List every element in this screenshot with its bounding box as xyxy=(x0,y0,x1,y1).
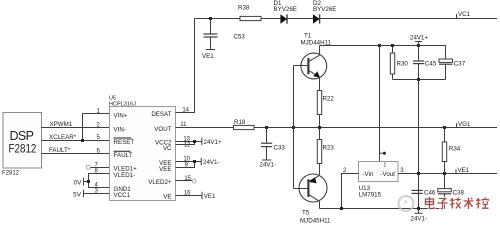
svg-text:C53: C53 xyxy=(234,34,246,41)
watermark glyph zi xyxy=(438,199,448,209)
svg-text:VCC1: VCC1 xyxy=(114,192,131,199)
watermark text glow xyxy=(426,197,489,209)
wire tie pin1-pin5 xyxy=(82,114,84,141)
resistor R30 xyxy=(392,46,394,54)
resistor R23 xyxy=(317,140,321,164)
svg-text:C38: C38 xyxy=(453,190,465,197)
power flag 24V1- bottom xyxy=(418,209,420,214)
wire XPWM1 xyxy=(42,127,110,129)
svg-text:XCLEAR*: XCLEAR* xyxy=(49,134,77,141)
svg-text:3: 3 xyxy=(400,168,404,174)
capacitor C38 electrolytic xyxy=(444,174,446,189)
svg-text:VC: VC xyxy=(163,145,172,152)
wire flag lead 13-12 xyxy=(195,141,202,143)
svg-text:T1: T1 xyxy=(304,33,312,40)
svg-text:VIN-: VIN- xyxy=(114,126,126,133)
transistor T5 MJD45H11 xyxy=(299,174,327,202)
junction pin2 col at bottom xyxy=(340,207,343,210)
power flag 24V1+ pins 13/12 xyxy=(201,138,203,146)
wire node to R23 xyxy=(319,128,321,140)
junction 0V node xyxy=(87,180,90,183)
wire R30/C45/C37 bus xyxy=(393,79,446,81)
wire pin7 stub xyxy=(91,167,110,169)
power flag 0V xyxy=(83,178,85,186)
junction VE1 at R34 col xyxy=(443,172,446,175)
svg-text:5V: 5V xyxy=(73,192,82,199)
wire T5 base lead xyxy=(294,188,309,190)
wire DESAT pin14 up xyxy=(176,19,195,113)
power flag 24V1- below C33 xyxy=(262,159,271,161)
watermark glyph kong xyxy=(476,197,489,208)
overline FAULT xyxy=(114,150,131,152)
svg-text:VOUT: VOUT xyxy=(154,126,171,133)
wire U13 gnd column xyxy=(379,46,381,162)
open circle pin15 xyxy=(192,179,196,183)
wire R22 to node xyxy=(319,115,321,128)
svg-text:R30: R30 xyxy=(397,61,409,68)
power flag VE1 below C53 xyxy=(206,49,215,51)
svg-text:24V1+: 24V1+ xyxy=(204,139,222,146)
svg-text:VG1: VG1 xyxy=(458,121,471,128)
transistor T1 MJD44H11 xyxy=(301,53,327,79)
svg-text:F2812: F2812 xyxy=(9,143,37,156)
wire 5V to pin3 xyxy=(84,193,110,195)
capacitor C45 xyxy=(418,46,420,62)
wire base column xyxy=(293,66,295,189)
svg-text:T5: T5 xyxy=(302,210,310,217)
wire U13 pin3 VE1 net xyxy=(398,173,497,175)
wire XCLEAR* xyxy=(42,140,110,142)
svg-text:LM7915: LM7915 xyxy=(359,191,382,198)
junction bracket 13-12 xyxy=(193,140,196,143)
svg-text:RESET: RESET xyxy=(114,139,135,146)
svg-text:F2812: F2812 xyxy=(2,171,20,177)
svg-text:MJD45H11: MJD45H11 xyxy=(300,218,331,225)
junction u13 gnd col tap xyxy=(378,44,381,47)
wire 24V1- column xyxy=(418,80,420,209)
wire pin16 VE xyxy=(176,195,203,197)
svg-text:FAULT*: FAULT* xyxy=(49,147,71,154)
wire pin9 bracket xyxy=(176,162,195,168)
wire T1 base lead xyxy=(294,65,309,67)
svg-text:VE1: VE1 xyxy=(458,167,470,174)
svg-text:2: 2 xyxy=(343,168,347,174)
svg-text:15: 15 xyxy=(184,176,191,182)
svg-text:HCPL316J: HCPL316J xyxy=(109,101,136,107)
svg-text:24V1-: 24V1- xyxy=(203,159,220,166)
wire 24V1+ rail xyxy=(320,46,446,60)
junction 24V1- col at bottom xyxy=(417,207,420,210)
power flag 24V1+ xyxy=(418,42,420,46)
wire pin13 xyxy=(176,141,195,143)
power flag VC1 top right xyxy=(456,14,458,19)
svg-text:BYV26E: BYV26E xyxy=(274,6,297,13)
wire U13 pin2 xyxy=(342,174,359,209)
net flag VE1 mid right xyxy=(455,169,457,173)
flag on U13 gnd column xyxy=(380,152,384,154)
watermark glyph ji xyxy=(450,198,461,209)
resistor R38 xyxy=(240,16,261,20)
wire VG1 net xyxy=(254,127,497,129)
gate driver U5 HCPL316J xyxy=(110,107,176,201)
svg-text:XPWM1: XPWM1 xyxy=(50,121,73,128)
svg-text:12: 12 xyxy=(184,142,191,148)
svg-text:VE: VE xyxy=(163,194,171,201)
svg-text:R18: R18 xyxy=(234,119,246,126)
resistor R18 xyxy=(234,125,255,129)
open circle pin7 xyxy=(86,165,90,169)
svg-text:VEE: VEE xyxy=(159,166,171,173)
capacitor C37 electrolytic xyxy=(439,59,453,62)
svg-text:VIN+: VIN+ xyxy=(114,112,128,119)
wire pin10 xyxy=(176,161,195,163)
power flag 5V xyxy=(83,190,85,198)
svg-text:VC1: VC1 xyxy=(458,11,471,18)
junction tie at XCLEAR xyxy=(81,139,84,142)
junction C33 tap xyxy=(265,126,268,129)
overline RESET xyxy=(114,137,132,139)
svg-text:C45: C45 xyxy=(425,60,437,67)
svg-text:C37: C37 xyxy=(454,60,466,67)
capacitor C46 xyxy=(418,174,420,191)
svg-text:1: 1 xyxy=(384,162,387,168)
svg-text:VE1: VE1 xyxy=(204,193,216,200)
power flag VE1 at pin16 xyxy=(201,192,203,200)
svg-text:R34: R34 xyxy=(449,146,461,153)
wire bottom 24V1- bus xyxy=(320,208,445,210)
svg-text:R22: R22 xyxy=(323,96,335,103)
resistor R34 xyxy=(444,128,446,143)
wire pin15 stub xyxy=(176,180,193,182)
wire pin12 bracket xyxy=(176,142,195,145)
svg-text:C33: C33 xyxy=(274,145,286,152)
junction R30 tap xyxy=(391,44,394,47)
wire top rail VC1 xyxy=(195,18,498,20)
watermark glyph dian xyxy=(426,197,435,209)
svg-text:24V1-: 24V1- xyxy=(260,162,277,169)
watermark glyph shu xyxy=(464,198,474,210)
svg-text:R23: R23 xyxy=(323,145,335,152)
svg-text:BYV26E: BYV26E xyxy=(313,6,336,13)
junction C45 tap xyxy=(417,44,420,47)
power flag 24V1- pins 10/9 xyxy=(200,158,202,166)
svg-text:VE1: VE1 xyxy=(202,53,214,60)
svg-text:R38: R38 xyxy=(238,5,250,12)
wire VOUT pin11 to R18 xyxy=(176,127,234,129)
junction bracket 10-9 xyxy=(193,160,196,163)
watermark logo circle xyxy=(399,196,414,211)
svg-text:FAULT: FAULT xyxy=(114,152,133,159)
svg-text:24V1-: 24V1- xyxy=(411,216,428,223)
resistor R22 xyxy=(317,91,321,115)
junction bus at C45 col xyxy=(417,78,420,81)
junction C53 tap xyxy=(209,17,212,20)
svg-text:-Vout: -Vout xyxy=(381,171,396,178)
voltage regulator U13 LM7915 xyxy=(359,162,399,182)
svg-text:VLED1-: VLED1- xyxy=(114,172,136,179)
wire pin8 VLED1- to 0V xyxy=(89,174,110,188)
svg-text:VLED2+: VLED2+ xyxy=(148,179,172,186)
svg-text:-Vin: -Vin xyxy=(363,171,374,178)
wire flag lead 10-9 xyxy=(195,161,202,163)
svg-text:0V: 0V xyxy=(74,180,83,187)
wire 0V lead xyxy=(84,181,89,183)
svg-text:24V1+: 24V1+ xyxy=(410,35,428,42)
diode D1 BYV26E xyxy=(280,14,287,23)
wire pin1 VIN+ xyxy=(83,113,110,115)
capacitor C33 xyxy=(266,128,268,144)
junction VE1 at 24V1- col xyxy=(417,172,420,175)
diode D2 BYV26E xyxy=(313,14,320,23)
wire FAULT* xyxy=(42,153,110,155)
DSP block F2812 xyxy=(3,113,42,169)
svg-text:DESAT: DESAT xyxy=(151,111,171,118)
capacitor C53 xyxy=(210,19,212,35)
net flag VG1 xyxy=(456,123,458,127)
svg-text:DSP: DSP xyxy=(10,129,34,143)
junction R22/R23 mid xyxy=(318,126,321,129)
junction VG1 at R34 col xyxy=(443,126,446,129)
junction base column on VG1 xyxy=(292,126,295,129)
